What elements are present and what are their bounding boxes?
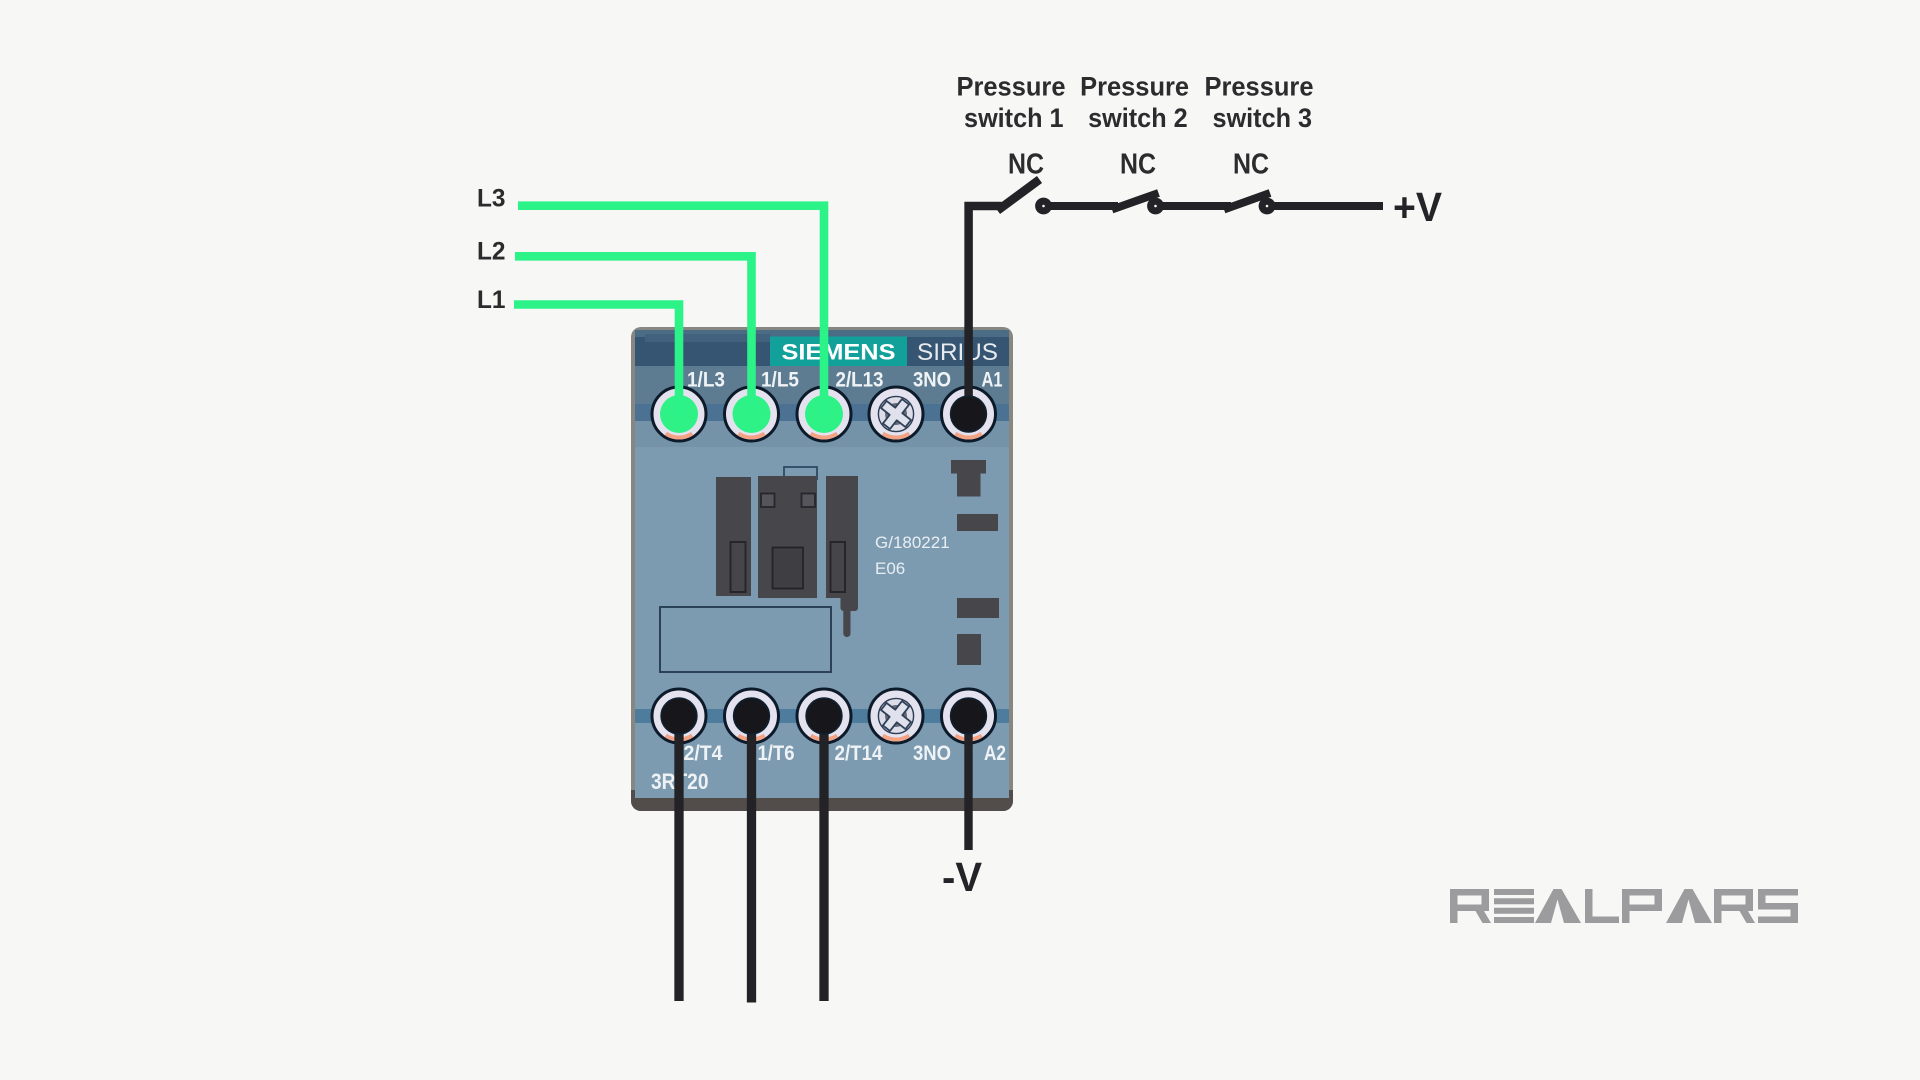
svg-text:A1: A1 bbox=[982, 369, 1003, 392]
terminal inner pads bottom row bbox=[661, 698, 987, 734]
svg-text:NC: NC bbox=[1233, 149, 1269, 181]
terminal 2/L13 ring bbox=[797, 387, 851, 441]
terminal 1/L5 ring bbox=[725, 387, 779, 441]
svg-text:Pressure: Pressure bbox=[1080, 72, 1189, 102]
pressure switch 1 contact dot bbox=[1035, 198, 1052, 215]
pad A1 bbox=[951, 396, 987, 432]
terminal 1/T6 ring bbox=[725, 689, 779, 743]
svg-text:NC: NC bbox=[1008, 149, 1044, 181]
svg-text:2/T4: 2/T4 bbox=[684, 742, 723, 765]
pad 1/L5 bbox=[733, 395, 771, 433]
terminal A2 ring bbox=[942, 689, 996, 743]
pressure switch 1 blade bbox=[998, 180, 1040, 211]
svg-text:L3: L3 bbox=[477, 184, 506, 212]
wire A1 to switch 1 bbox=[969, 206, 1002, 414]
internals: right bar 2 bbox=[957, 598, 999, 618]
internals: left coil block bbox=[716, 477, 751, 596]
svg-text:switch 1: switch 1 bbox=[964, 103, 1064, 133]
bottom terminal stripe bbox=[635, 709, 1009, 723]
svg-text:+V: +V bbox=[1393, 184, 1443, 230]
internals: right square bbox=[957, 634, 981, 665]
plunger bbox=[841, 598, 859, 637]
screw terminal 3NO bottom bbox=[869, 689, 923, 743]
terminal 1/L3 ring bbox=[652, 387, 706, 441]
internals: right block bbox=[826, 476, 858, 637]
svg-text:L2: L2 bbox=[477, 238, 506, 266]
pressure switch 2 contact dot bbox=[1147, 198, 1164, 215]
svg-text:SIRIUS: SIRIUS bbox=[917, 339, 998, 366]
internals: right bar 1 bbox=[957, 514, 998, 531]
svg-text:A2: A2 bbox=[984, 742, 1006, 765]
internals: marking window bbox=[660, 607, 831, 672]
svg-text:SIEMENS: SIEMENS bbox=[782, 340, 896, 365]
svg-text:G/180221: G/180221 bbox=[875, 533, 950, 552]
wire 2/T14 down bbox=[819, 716, 828, 1001]
svg-text:-V: -V bbox=[942, 854, 983, 900]
svg-text:2/L13: 2/L13 bbox=[836, 369, 884, 392]
contactor K1 outer shell bbox=[631, 327, 1013, 811]
SIEMENS logo bbox=[770, 337, 907, 367]
terminal 2/T4 ring bbox=[652, 689, 706, 743]
svg-text:3NO: 3NO bbox=[913, 742, 951, 765]
wire A2 to -V bbox=[964, 716, 972, 850]
pad 2/L13 bbox=[805, 395, 843, 433]
svg-text:Pressure: Pressure bbox=[957, 72, 1066, 102]
wire stub into 1/L3 bbox=[675, 396, 684, 414]
svg-text:switch 2: switch 2 bbox=[1088, 103, 1188, 133]
terminal A1 ring bbox=[942, 387, 996, 441]
wire stub into 1/L5 bbox=[747, 396, 756, 414]
internals: right side T-block bbox=[951, 460, 986, 497]
terminal rings top row bbox=[652, 387, 996, 441]
wire L1 bbox=[514, 305, 679, 415]
wire 1/T6 down bbox=[747, 716, 756, 1003]
wire switch1 to switch2 bbox=[1047, 202, 1118, 210]
wire stub into 2/L13 bbox=[820, 396, 829, 414]
svg-text:E06: E06 bbox=[875, 559, 905, 578]
svg-text:1/T6: 1/T6 bbox=[758, 742, 795, 765]
wire switch3 to +V bbox=[1271, 202, 1383, 210]
contactor body panel bbox=[635, 330, 1009, 798]
label strip bbox=[635, 366, 1009, 404]
pressure switch 3 contact dot bbox=[1259, 198, 1276, 215]
svg-text:2/T14: 2/T14 bbox=[835, 742, 883, 765]
green wire stubs over pads bbox=[679, 396, 824, 414]
pad 1/L3 bbox=[660, 395, 698, 433]
REALPARS watermark bbox=[1450, 889, 1798, 923]
internals: middle block bbox=[758, 467, 817, 598]
svg-text:Pressure: Pressure bbox=[1205, 72, 1314, 102]
svg-text:NC: NC bbox=[1120, 149, 1156, 181]
terminal rings bottom row bbox=[652, 689, 996, 743]
svg-text:1/L5: 1/L5 bbox=[761, 369, 799, 392]
svg-text:switch 3: switch 3 bbox=[1213, 103, 1313, 133]
top terminal stripe bbox=[635, 404, 1009, 421]
svg-text:L1: L1 bbox=[477, 286, 506, 314]
wire switch2 to switch3 bbox=[1160, 202, 1231, 210]
terminal inner pads top row bbox=[660, 395, 987, 433]
wire 2/T4 down bbox=[674, 716, 683, 1001]
svg-text:1/L3: 1/L3 bbox=[687, 369, 725, 392]
svg-text:3NO: 3NO bbox=[913, 369, 951, 392]
terminal 2/T14 ring bbox=[797, 689, 851, 743]
wire L2 bbox=[515, 256, 752, 414]
top dark band bbox=[635, 330, 1009, 367]
screw terminal 3NO top bbox=[869, 387, 923, 441]
pad 2/T4 bbox=[661, 698, 697, 734]
pad 1/T6 bbox=[734, 698, 770, 734]
pad A2 bbox=[951, 698, 987, 734]
pad 2/T14 bbox=[806, 698, 842, 734]
pressure switch 3 blade bbox=[1224, 193, 1270, 210]
wire L3 bbox=[518, 206, 824, 414]
pressure switch 2 blade bbox=[1112, 193, 1159, 210]
